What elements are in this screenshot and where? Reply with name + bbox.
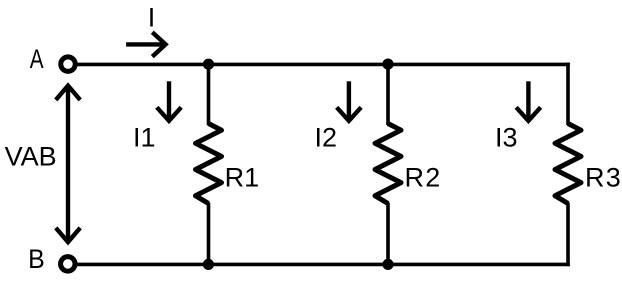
- wire: top, node 2 to top-right corner: [388, 63, 570, 67]
- svg-text:I2: I2: [315, 122, 338, 152]
- current I2 arrow: [337, 81, 361, 121]
- current I1 arrow: [157, 81, 181, 121]
- svg-text:A: A: [30, 44, 44, 74]
- current I arrow: [126, 32, 166, 56]
- junction dot: node 1 top: [203, 59, 214, 70]
- junction dot: node 1 bottom: [203, 259, 214, 270]
- resistor R2 zigzag: [375, 124, 401, 204]
- junction dot: node 2 top: [382, 59, 393, 70]
- terminal A (open circle): [61, 57, 76, 72]
- wire: top, node 1 to node 2: [209, 63, 389, 67]
- current I3 arrow: [516, 81, 540, 121]
- resistor R3 zigzag: [555, 124, 581, 204]
- svg-text:I1: I1: [133, 122, 156, 152]
- wire: R2 top lead: [386, 64, 390, 125]
- svg-text:I: I: [148, 3, 156, 33]
- resistor R1 zigzag: [196, 124, 222, 204]
- svg-text:R2: R2: [405, 162, 442, 192]
- svg-text:R1: R1: [225, 162, 260, 192]
- svg-text:I3: I3: [495, 122, 518, 152]
- junction dot: node 2 bottom: [382, 259, 393, 270]
- wire: R2 bottom lead: [386, 203, 390, 265]
- wire: R3 top lead (right branch from top-right corner): [566, 63, 570, 125]
- svg-text:VAB: VAB: [5, 142, 57, 172]
- wire: R3 bottom lead (right branch to bottom-right corner): [566, 203, 570, 267]
- wire: R1 top lead: [207, 64, 211, 125]
- wire: bottom, terminal B to node 1: [77, 263, 208, 267]
- svg-text:B: B: [28, 244, 45, 274]
- wire: R1 bottom lead: [207, 203, 211, 265]
- svg-text:R3: R3: [585, 162, 622, 192]
- terminal B (open circle): [61, 257, 76, 272]
- wire: top, terminal A to node 1: [77, 63, 208, 67]
- wire: bottom, node 1 to node 2: [209, 263, 389, 267]
- wire: bottom, node 2 to bottom-right corner: [388, 263, 570, 267]
- voltage VAB double-headed arrow: [56, 86, 80, 243]
